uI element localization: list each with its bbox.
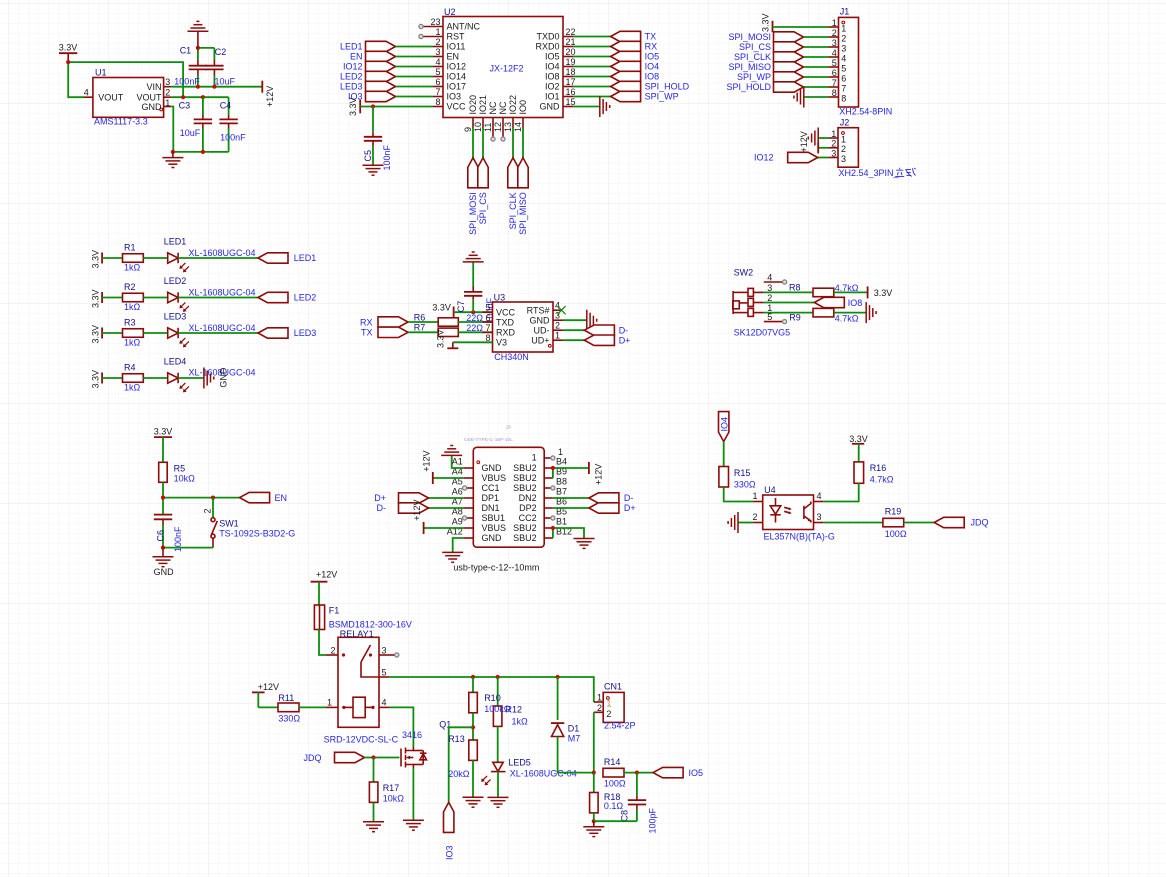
svg-text:XL-1608UGC-04: XL-1608UGC-04 xyxy=(189,323,256,333)
svg-text:D+: D+ xyxy=(619,335,631,345)
ground (A1, inverted) xyxy=(441,446,463,469)
svg-text:AMS1117-3.3: AMS1117-3.3 xyxy=(94,116,148,126)
svg-text:IO12: IO12 xyxy=(343,62,363,72)
capacitor C2 xyxy=(205,47,235,87)
LED LED2 xyxy=(164,276,256,312)
svg-text:C6: C6 xyxy=(156,530,166,542)
power flag +12V (R11) xyxy=(252,682,279,708)
power flag +12V (F1) xyxy=(311,570,338,606)
netport SPI_MISO xyxy=(728,62,828,72)
netport SPI_MISO xyxy=(518,128,528,235)
capacitor C5 xyxy=(363,107,392,171)
svg-text:IO20: IO20 xyxy=(468,95,478,115)
wire xyxy=(163,497,240,499)
netport TX xyxy=(573,31,656,41)
svg-text:4.7kΩ: 4.7kΩ xyxy=(835,313,859,323)
netport D- (B7) xyxy=(553,493,634,503)
svg-text:F1: F1 xyxy=(329,606,340,616)
svg-text:+12V: +12V xyxy=(593,464,603,485)
svg-text:+12V: +12V xyxy=(258,682,279,692)
svg-text:3.3V: 3.3V xyxy=(90,250,100,269)
netport JDQ xyxy=(934,517,988,527)
svg-text:1kΩ: 1kΩ xyxy=(512,716,529,726)
svg-text:R8: R8 xyxy=(789,283,801,293)
resistor R14 xyxy=(603,757,626,788)
svg-text:JDQ: JDQ xyxy=(304,753,322,763)
svg-text:IO8: IO8 xyxy=(545,72,560,82)
svg-text:TS-1092S-B3D2-G: TS-1092S-B3D2-G xyxy=(219,528,295,538)
no-connect X (RTS#) xyxy=(557,306,565,314)
svg-text:DP1: DP1 xyxy=(482,493,500,503)
svg-text:2: 2 xyxy=(832,28,837,38)
netport IO4 xyxy=(573,61,659,71)
svg-text:5: 5 xyxy=(435,67,440,77)
svg-text:TX: TX xyxy=(645,32,657,42)
junction xyxy=(551,466,555,470)
svg-text:SPI_HOLD: SPI_HOLD xyxy=(645,82,690,92)
svg-text:3416: 3416 xyxy=(402,730,422,740)
svg-text:1: 1 xyxy=(832,18,837,28)
connector J1 xyxy=(829,7,893,117)
svg-text:3: 3 xyxy=(841,43,846,53)
junction xyxy=(556,675,560,679)
ground (inverted, above C7) xyxy=(463,252,484,262)
svg-text:1: 1 xyxy=(841,23,846,33)
svg-text:R9: R9 xyxy=(789,313,801,323)
wire xyxy=(178,332,258,334)
resistor R1 xyxy=(123,243,144,273)
svg-text:330Ω: 330Ω xyxy=(734,480,756,490)
svg-text:ANT/NC: ANT/NC xyxy=(447,22,481,32)
svg-text:J3: J3 xyxy=(506,425,511,431)
svg-text:JDQ: JDQ xyxy=(971,518,989,528)
power flag 3.3V (R5) xyxy=(154,426,173,462)
wire xyxy=(365,757,400,759)
netport D- (U3) xyxy=(563,325,628,335)
wire xyxy=(764,312,813,314)
resistor R9 xyxy=(789,308,858,323)
svg-text:1: 1 xyxy=(558,447,563,457)
svg-text:1kΩ: 1kΩ xyxy=(124,263,141,273)
wire xyxy=(497,772,499,797)
svg-text:SW1: SW1 xyxy=(219,519,239,529)
svg-text:LED1: LED1 xyxy=(294,253,317,263)
connector CN1 xyxy=(594,682,636,731)
netport D+ (B6) xyxy=(553,503,636,513)
svg-text:5: 5 xyxy=(841,63,846,73)
junction xyxy=(196,85,200,89)
wire xyxy=(162,482,164,514)
svg-text:SPI_CS: SPI_CS xyxy=(478,192,488,224)
capacitor C1 xyxy=(174,46,207,87)
svg-text:GND: GND xyxy=(482,463,503,473)
svg-text:20: 20 xyxy=(566,47,576,57)
wire xyxy=(178,297,258,299)
svg-text:3.3V: 3.3V xyxy=(348,97,358,116)
svg-text:XH2.54-8PIN: XH2.54-8PIN xyxy=(839,107,892,117)
svg-text:4: 4 xyxy=(767,273,772,283)
svg-text:2: 2 xyxy=(752,512,757,522)
svg-text:IO4: IO4 xyxy=(645,62,660,72)
wire xyxy=(178,257,258,259)
svg-text:D-: D- xyxy=(619,325,629,335)
svg-text:SPI_CLK: SPI_CLK xyxy=(508,192,518,229)
power flag +12V (A4) xyxy=(421,451,463,484)
svg-text:TX: TX xyxy=(361,328,373,338)
svg-text:1: 1 xyxy=(831,129,836,139)
power flag +12V (A9) xyxy=(412,500,463,534)
power flag +12V (J2 pin2) xyxy=(799,131,829,153)
svg-text:VCC: VCC xyxy=(496,307,516,317)
wire xyxy=(472,760,474,797)
svg-text:DP2: DP2 xyxy=(519,503,537,513)
svg-text:R6: R6 xyxy=(414,312,426,322)
junction xyxy=(66,60,70,64)
resistor R2 xyxy=(123,282,144,312)
svg-text:J1: J1 xyxy=(840,7,850,17)
svg-text:5: 5 xyxy=(382,667,387,677)
svg-text:RELAY1: RELAY1 xyxy=(340,629,374,639)
svg-text:SPI_WP: SPI_WP xyxy=(645,92,679,102)
svg-text:GND: GND xyxy=(530,316,551,326)
svg-text:LED2: LED2 xyxy=(294,293,317,303)
junction xyxy=(635,771,639,775)
svg-text:16: 16 xyxy=(566,87,576,97)
svg-text:1: 1 xyxy=(597,693,602,703)
svg-text:A1: A1 xyxy=(452,457,463,467)
junction xyxy=(471,675,475,679)
wire xyxy=(593,773,595,793)
svg-text:3: 3 xyxy=(382,645,387,655)
svg-text:EN: EN xyxy=(447,52,460,62)
junction xyxy=(211,496,215,500)
ground (Q1) xyxy=(403,820,424,830)
svg-text:UD-: UD- xyxy=(534,325,550,335)
resistor R5 xyxy=(159,462,195,483)
svg-text:DN2: DN2 xyxy=(519,493,537,503)
netport TX xyxy=(361,327,438,338)
wire xyxy=(904,522,935,524)
netport SPI_CLK xyxy=(508,128,518,230)
netport IO3 (vertical) xyxy=(444,802,455,860)
svg-text:2: 2 xyxy=(165,88,170,98)
netport SPI_HOLD xyxy=(573,81,690,91)
netport IO8 xyxy=(573,71,659,81)
wire xyxy=(552,468,554,478)
wire (R10 column) xyxy=(472,677,474,692)
svg-text:RXD: RXD xyxy=(496,328,516,338)
svg-text:R1: R1 xyxy=(124,243,136,253)
svg-text:IO3: IO3 xyxy=(444,845,454,860)
wire xyxy=(594,820,637,822)
svg-text:6: 6 xyxy=(485,313,490,323)
wire xyxy=(558,737,594,773)
ground (R18) xyxy=(583,821,604,836)
svg-text:3: 3 xyxy=(165,77,170,87)
svg-text:SBU2: SBU2 xyxy=(513,463,537,473)
netport EN xyxy=(240,492,287,502)
svg-text:IO8: IO8 xyxy=(848,298,863,308)
svg-text:2: 2 xyxy=(841,144,846,154)
svg-text:SPI_MISO: SPI_MISO xyxy=(728,62,771,72)
svg-text:17: 17 xyxy=(566,77,576,87)
netport IO4 (vertical) xyxy=(719,412,730,442)
svg-text:6: 6 xyxy=(435,77,440,87)
svg-text:1: 1 xyxy=(752,491,757,501)
svg-text:DN1: DN1 xyxy=(482,503,500,513)
svg-text:R19: R19 xyxy=(885,507,902,517)
svg-text:SPI_CS: SPI_CS xyxy=(739,42,771,52)
svg-text:GND: GND xyxy=(142,102,163,112)
netport LED2 xyxy=(340,71,433,81)
svg-text:2: 2 xyxy=(606,709,611,719)
wire xyxy=(472,713,474,740)
svg-text:7: 7 xyxy=(485,323,490,333)
junction xyxy=(371,104,375,108)
svg-text:1: 1 xyxy=(165,98,170,108)
svg-text:NC: NC xyxy=(488,101,498,114)
svg-text:4.7kΩ: 4.7kΩ xyxy=(870,474,894,484)
svg-text:U1: U1 xyxy=(95,67,107,77)
wire xyxy=(834,312,866,314)
svg-text:EN: EN xyxy=(275,493,288,503)
svg-text:IO12: IO12 xyxy=(447,62,467,72)
LED LED3 xyxy=(164,312,256,348)
svg-text:VIN: VIN xyxy=(146,82,161,92)
junction xyxy=(471,310,475,314)
wire xyxy=(834,291,868,293)
svg-text:IO5: IO5 xyxy=(545,52,560,62)
svg-text:LED1: LED1 xyxy=(164,237,187,247)
fuse F1 xyxy=(314,605,411,630)
svg-text:9: 9 xyxy=(463,127,473,132)
ground (LED4) xyxy=(204,367,229,388)
wire xyxy=(319,630,326,656)
svg-text:C2: C2 xyxy=(215,47,227,57)
svg-text:IO4: IO4 xyxy=(719,417,729,432)
svg-text:D1: D1 xyxy=(568,723,580,733)
svg-text:IO21: IO21 xyxy=(478,95,488,115)
svg-text:VOUT: VOUT xyxy=(98,92,124,102)
resistor R3 xyxy=(123,318,144,348)
wire VIN row xyxy=(171,86,262,88)
netport RX xyxy=(573,41,657,51)
svg-text:3: 3 xyxy=(817,512,822,522)
svg-text:7: 7 xyxy=(832,78,837,88)
svg-text:4.7kΩ: 4.7kΩ xyxy=(835,283,859,293)
svg-text:3: 3 xyxy=(841,154,846,164)
power flag +12V xyxy=(262,81,275,107)
netport SPI_MOSI xyxy=(468,128,478,235)
junction xyxy=(471,725,475,729)
svg-text:6: 6 xyxy=(832,68,837,78)
power flag 3.3V (J1 pin1) xyxy=(761,13,829,32)
svg-text:3.3V: 3.3V xyxy=(154,426,173,436)
svg-text:R4: R4 xyxy=(124,363,136,373)
junction xyxy=(592,771,596,775)
resistor R11 xyxy=(278,693,300,724)
ground (R9) xyxy=(866,302,876,323)
svg-text:BSMD1812-300-16V: BSMD1812-300-16V xyxy=(329,620,412,630)
svg-text:LED2: LED2 xyxy=(164,276,187,286)
svg-text:4: 4 xyxy=(382,698,387,708)
svg-text:LED1: LED1 xyxy=(340,42,363,52)
svg-text:CN1: CN1 xyxy=(604,682,622,692)
power flag 3.3V xyxy=(59,43,78,62)
svg-text:IO4: IO4 xyxy=(545,62,560,72)
svg-text:4: 4 xyxy=(832,48,837,58)
svg-text:A9: A9 xyxy=(452,517,463,527)
svg-text:2: 2 xyxy=(831,139,836,149)
svg-text:EL357N(B)(TA)-G: EL357N(B)(TA)-G xyxy=(764,532,835,542)
wire (CN1 pin2 down) xyxy=(593,712,595,772)
svg-text:2: 2 xyxy=(597,703,602,713)
resistor R16 xyxy=(854,462,894,484)
svg-text:IO2: IO2 xyxy=(545,82,560,92)
svg-text:SPI_MISO: SPI_MISO xyxy=(518,192,528,235)
svg-text:B4: B4 xyxy=(556,457,567,467)
wire xyxy=(723,442,725,467)
ground xyxy=(162,152,183,168)
capacitor C6 xyxy=(154,515,183,552)
svg-text:100nF: 100nF xyxy=(174,77,200,87)
connector J3 (USB-TYPE-C) xyxy=(447,425,572,573)
svg-text:+12V: +12V xyxy=(316,570,337,580)
svg-text:UD+: UD+ xyxy=(531,335,549,345)
power flag 3.3V (R16) xyxy=(849,434,868,462)
svg-text:C5: C5 xyxy=(363,150,373,162)
netport SPI_WP xyxy=(737,72,829,82)
relay RELAY1 xyxy=(324,629,399,745)
svg-text:+12V: +12V xyxy=(265,86,275,107)
svg-text:10kΩ: 10kΩ xyxy=(383,794,405,804)
netport LED1 xyxy=(340,41,433,51)
svg-text:5: 5 xyxy=(485,303,490,313)
svg-text:13: 13 xyxy=(503,122,513,132)
svg-text:SBU2: SBU2 xyxy=(513,473,537,483)
svg-text:330Ω: 330Ω xyxy=(278,714,300,724)
ic U3 xyxy=(483,292,564,362)
resistor R13 xyxy=(448,734,477,779)
junction xyxy=(212,85,216,89)
svg-text:XL-1608UGC-04: XL-1608UGC-04 xyxy=(189,287,256,297)
wire (pin4 to Q1 drain) xyxy=(389,707,413,747)
svg-text:5: 5 xyxy=(767,312,772,322)
svg-text:3.3V: 3.3V xyxy=(761,13,771,32)
svg-text:IO14: IO14 xyxy=(447,72,467,82)
wire (pin5 net) xyxy=(389,677,594,702)
svg-text:R17: R17 xyxy=(383,783,400,793)
svg-text:GND: GND xyxy=(540,102,561,112)
optocoupler U4 xyxy=(752,485,834,542)
svg-text:A6: A6 xyxy=(452,487,463,497)
svg-text:5: 5 xyxy=(832,58,837,68)
svg-text:4: 4 xyxy=(84,87,89,97)
junction xyxy=(551,526,555,530)
svg-text:SPI_CLK: SPI_CLK xyxy=(734,52,771,62)
svg-text:R14: R14 xyxy=(604,757,621,767)
svg-text:C8: C8 xyxy=(619,810,629,822)
junction xyxy=(181,95,185,99)
svg-text:21: 21 xyxy=(566,37,576,47)
svg-text:11: 11 xyxy=(483,123,493,132)
junction xyxy=(201,95,205,99)
junction xyxy=(592,819,596,823)
svg-text:SBU2: SBU2 xyxy=(513,533,537,543)
svg-text:R11: R11 xyxy=(278,693,294,703)
svg-text:SK12D07VG5: SK12D07VG5 xyxy=(734,327,791,337)
svg-text:IO17: IO17 xyxy=(447,82,467,92)
svg-text:SBU1: SBU1 xyxy=(482,513,506,523)
svg-text:100kΩ: 100kΩ xyxy=(484,704,511,714)
resistor R15 xyxy=(719,467,756,490)
module U2 xyxy=(419,7,576,141)
netport IO5 xyxy=(653,767,703,777)
svg-text:J2: J2 xyxy=(840,118,850,128)
junction xyxy=(161,496,165,500)
ground (R13) xyxy=(463,797,484,807)
svg-text:D+: D+ xyxy=(374,493,386,503)
resistor R4 xyxy=(123,363,144,393)
diode D1 xyxy=(551,677,580,743)
svg-text:2: 2 xyxy=(435,37,440,47)
regulator U1 xyxy=(84,67,171,126)
wire xyxy=(143,297,167,299)
netport D+ (A6) xyxy=(374,493,463,503)
netport D+ (U3) xyxy=(563,335,630,345)
wire xyxy=(299,706,326,708)
netport SPI_HOLD xyxy=(726,82,828,92)
svg-text:3.3V: 3.3V xyxy=(436,329,446,348)
netport LED3 xyxy=(258,328,316,338)
wire xyxy=(373,758,375,783)
svg-text:M7: M7 xyxy=(568,733,581,743)
pushbutton SW1 xyxy=(203,498,296,548)
svg-text:12: 12 xyxy=(493,122,503,132)
svg-text:100nF: 100nF xyxy=(382,144,392,170)
netport LED1 xyxy=(258,253,316,263)
wire xyxy=(823,522,883,524)
power flag +12V (B4) xyxy=(553,462,604,485)
ground (U4 pin2) xyxy=(728,512,753,533)
svg-text:IO0: IO0 xyxy=(518,100,528,115)
wire (R12 column) xyxy=(497,677,499,706)
ground (LED5) xyxy=(488,797,509,807)
junction xyxy=(496,675,500,679)
wire xyxy=(823,483,859,501)
svg-text:IO5: IO5 xyxy=(689,768,704,778)
ground (J1 pin8) xyxy=(794,87,829,108)
svg-text:LED4: LED4 xyxy=(164,357,187,367)
svg-text:R2: R2 xyxy=(124,282,136,292)
svg-text:SPI_MOSI: SPI_MOSI xyxy=(468,192,478,235)
wire xyxy=(724,487,753,502)
svg-text:R13: R13 xyxy=(448,734,465,744)
ground (R17) xyxy=(363,822,384,832)
svg-text:VBUS: VBUS xyxy=(482,523,507,533)
svg-text:3: 3 xyxy=(767,283,772,293)
svg-text:VBUS: VBUS xyxy=(482,473,507,483)
svg-text:U2: U2 xyxy=(444,7,456,17)
wire GND net xyxy=(171,107,228,152)
svg-text:100pF: 100pF xyxy=(648,807,658,833)
svg-text:LED3: LED3 xyxy=(340,82,363,92)
capacitor C7 xyxy=(456,262,495,324)
ground (J2 pin1) xyxy=(808,128,828,149)
svg-text:RST: RST xyxy=(447,32,466,42)
ground xyxy=(363,165,384,175)
wire xyxy=(764,291,813,293)
